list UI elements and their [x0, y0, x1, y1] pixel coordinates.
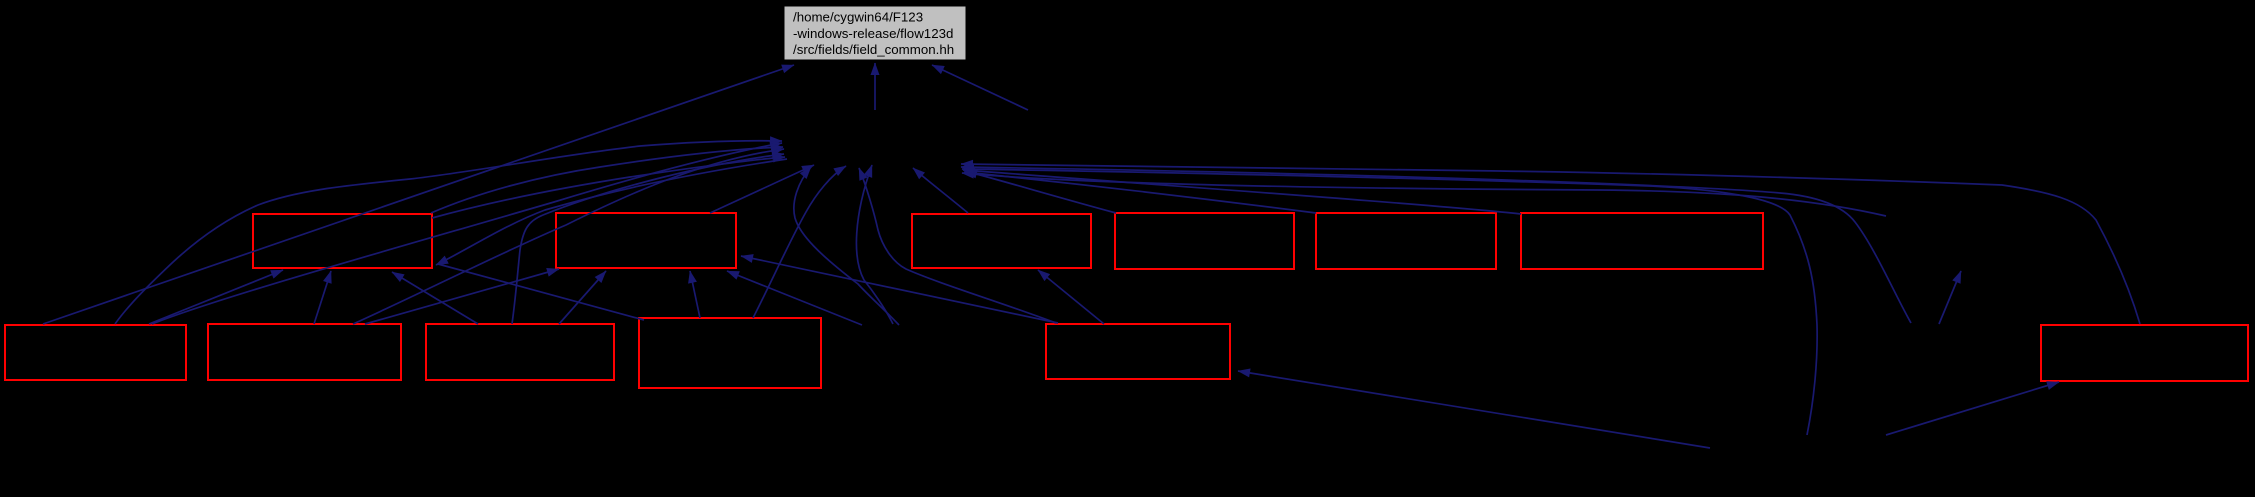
svg-text:-windows-release/flow123d: -windows-release/flow123d	[793, 26, 953, 41]
edge K -> N1 (bending curve)	[859, 168, 1056, 323]
svg-text:/home/cygwin64/F123: /home/cygwin64/F123	[793, 10, 923, 25]
edge N6 -> root	[932, 65, 1028, 110]
edge N3 -> N2	[1939, 271, 1961, 324]
edge N3 -> N1	[961, 167, 1911, 323]
edge K -> C	[1038, 270, 1104, 324]
edge K -> B	[741, 256, 1058, 323]
edge G -> root	[43, 65, 794, 324]
edge N1 -> root	[874, 63, 876, 110]
edge A -> N1 (shallow)	[432, 157, 785, 218]
edge N5 -> B	[727, 271, 862, 325]
edge N5 -> N1 (v2)	[794, 167, 899, 325]
edge N5 -> N1 (v1)	[856, 165, 893, 324]
edge N2 -> N1	[962, 173, 1886, 216]
node L (far right)	[2041, 325, 2248, 381]
edge I -> N1 (steep curve)	[512, 154, 784, 324]
edge J -> N1 (b)	[753, 166, 846, 318]
edge E -> N1	[964, 172, 1316, 213]
edge N4 -> N1	[962, 169, 1817, 435]
edge C -> N1	[913, 168, 968, 213]
edge H -> B	[365, 269, 559, 324]
node H	[208, 324, 401, 380]
node D	[1115, 213, 1294, 269]
node C	[912, 214, 1091, 268]
edge F -> N1	[963, 170, 1521, 214]
edge H -> N1 (right line)	[353, 149, 784, 324]
svg-text:/src/fields/field_common.hh: /src/fields/field_common.hh	[793, 42, 954, 57]
edge G -> N1 (long curve)	[115, 141, 782, 324]
edge I -> B	[559, 271, 606, 324]
node E	[1316, 213, 1496, 269]
edge G -> N1 (straight, crosses A)	[152, 143, 782, 324]
node: root grey box field_common.hh	[784, 6, 966, 60]
node G (red box, bottom row)	[5, 325, 186, 380]
edge A -> N1 (from corner)	[431, 147, 783, 213]
node K	[1046, 324, 1230, 379]
edge H -> A	[314, 271, 331, 324]
edge N1 -> A corner	[436, 159, 787, 265]
edge I -> A	[392, 272, 478, 324]
node F	[1521, 213, 1763, 269]
edge N4 -> L	[1886, 382, 2059, 435]
node J (taller box)	[639, 318, 821, 388]
edge G -> A	[149, 270, 283, 324]
edge D -> N1	[965, 171, 1116, 213]
edge J -> A corner	[438, 264, 644, 320]
node A (red box, middle row)	[253, 214, 432, 268]
node I	[426, 324, 614, 380]
edge J -> B	[690, 271, 700, 318]
node B	[556, 213, 736, 268]
edge L -> N1	[961, 164, 2140, 324]
edge B -> N1	[710, 165, 814, 213]
edge N4 -> K	[1238, 371, 1710, 448]
